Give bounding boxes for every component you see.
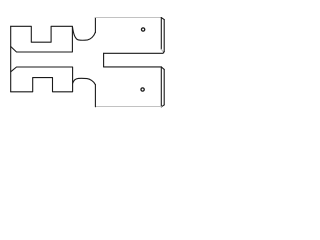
slot left end <box>103 53 105 67</box>
upper tab outer right edge <box>163 20 165 52</box>
lower transition S-curve <box>73 78 96 84</box>
lower tab bottom-right chamfer <box>161 105 164 107</box>
barrel left edge (shared long vertical) <box>10 26 12 92</box>
upper tab top edge (faint) <box>95 17 161 19</box>
hole in upper tab <box>141 28 144 31</box>
upper tab bottom edge (slot top) <box>104 52 165 54</box>
hole in lower tab <box>141 88 144 91</box>
upper tab inner-to-outer seam chamfer (faint) <box>161 49 164 53</box>
lower tab outer right edge <box>163 69 165 105</box>
lower tab inner right edge (rolled edge line) <box>160 67 162 107</box>
upper tab left edge <box>94 18 96 33</box>
lower tab top edge (slot bottom) <box>104 66 162 68</box>
lower tab top-right chamfer <box>161 67 164 69</box>
lower tab bottom edge (faint) <box>95 106 161 108</box>
upper tab inner right edge (rolled edge line) <box>160 18 162 50</box>
lower barrel outline with raised boss <box>11 67 73 92</box>
upper tab top-right chamfer <box>161 18 164 20</box>
lower tab left edge <box>94 85 96 107</box>
upper barrel outline with U-notch <box>11 26 73 52</box>
upper transition S-curve <box>73 27 96 40</box>
